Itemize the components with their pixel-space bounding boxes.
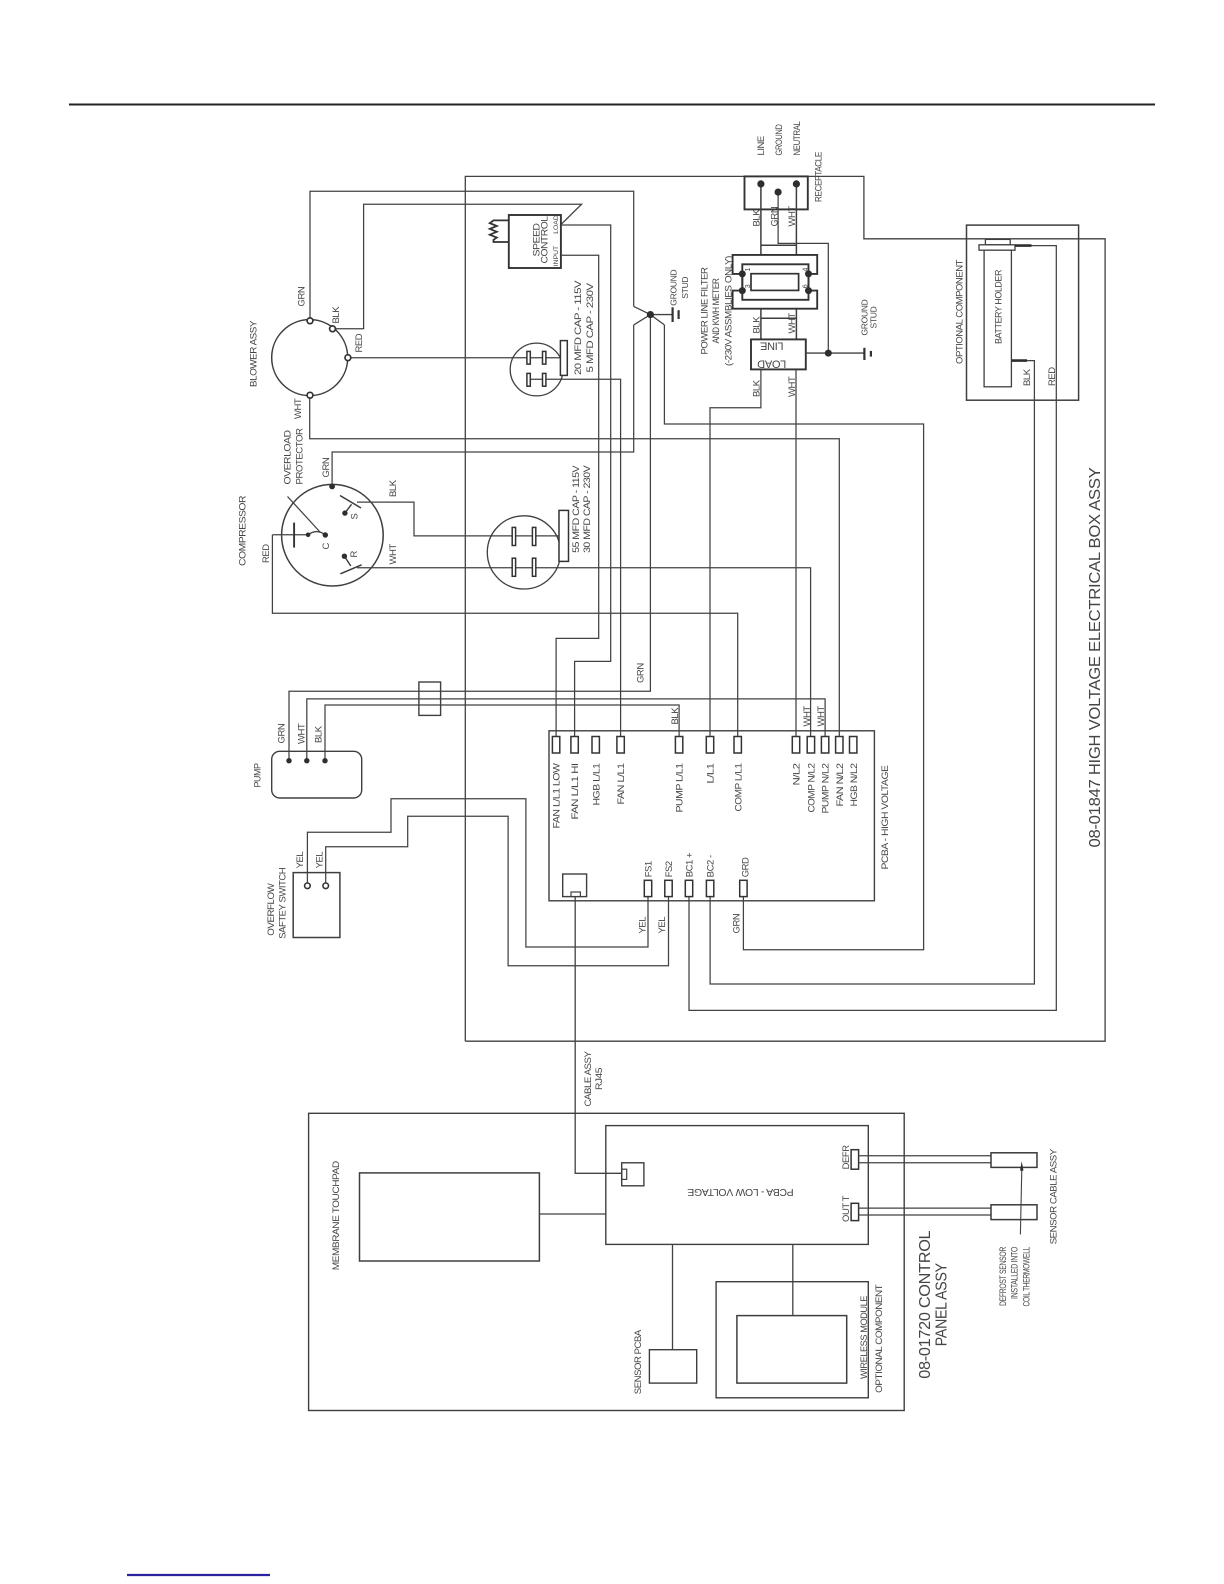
svg-text:NEUTRAL: NEUTRAL [792, 121, 803, 155]
svg-text:BLK: BLK [752, 316, 763, 334]
svg-text:FAN L/L1 HI: FAN L/L1 HI [570, 764, 581, 820]
svg-text:GRD: GRD [741, 857, 752, 877]
pump box [272, 751, 362, 798]
svg-text:PUMP N/L2: PUMP N/L2 [821, 763, 832, 813]
svg-text:LOAD: LOAD [553, 215, 560, 234]
wire: blower BLK to speed control flag [334, 204, 582, 329]
wire: speed control LOAD to FAN L/L1 HI [561, 225, 611, 737]
svg-text:PANEL ASSY: PANEL ASSY [933, 1263, 950, 1347]
ground stud 2 symbol [864, 348, 871, 360]
node: junction dot at ground stud 2 [825, 350, 832, 357]
arrow: defrost sensor pointer [1020, 1169, 1021, 1235]
node: blower BLK terminal [330, 326, 336, 332]
wireless module outer box [716, 1282, 868, 1398]
svg-text:AND KWH METER: AND KWH METER [711, 278, 722, 344]
svg-text:GROUND: GROUND [774, 124, 785, 155]
wireless module inner box [737, 1316, 847, 1384]
node: compressor R dot [342, 554, 347, 559]
capacitor C1 plates [527, 351, 546, 386]
svg-text:RECEPTACLE: RECEPTACLE [813, 152, 824, 202]
wire: filter BLK down to LINE box [760, 309, 762, 340]
wire: high voltage box boundary (left of receptacle) [465, 176, 744, 1041]
svg-text:20 MFD CAP - 115V: 20 MFD CAP - 115V [573, 280, 584, 375]
filter middle rectangle [742, 264, 808, 300]
svg-text:FAN L/L1 LOW: FAN L/L1 LOW [552, 763, 563, 829]
svg-text:OVERFLOW: OVERFLOW [266, 883, 277, 935]
svg-text:OPTIONAL COMPONENT: OPTIONAL COMPONENT [874, 1284, 885, 1393]
wire: RED into overload protector [272, 534, 308, 536]
svg-text:GRN: GRN [277, 723, 288, 743]
svg-text:DEFR: DEFR [841, 1145, 852, 1170]
wire: pump BLK to PUMP L/L1 [325, 705, 679, 761]
capacitor C1 terminal bracket [560, 341, 567, 376]
svg-text:GRN: GRN [297, 286, 308, 306]
svg-text:SENSOR PCBA: SENSOR PCBA [633, 1329, 644, 1394]
RJ45 connector on low voltage PCBA [622, 1163, 644, 1186]
svg-text:GRN: GRN [321, 457, 332, 477]
wire: GRD from junction to PCBA GRD [664, 325, 923, 950]
wire: blower RED to capacitor C1 [350, 357, 560, 359]
wire: high voltage box boundary (right of receptacle, jog and right side) [465, 176, 1105, 1041]
svg-text:BLK: BLK [388, 479, 399, 497]
svg-text:RED: RED [354, 333, 365, 352]
battery cap bar [979, 245, 1015, 250]
wire: low voltage PCBA to wireless module [792, 1244, 794, 1315]
OUT T terminal [851, 1203, 859, 1220]
svg-text:STUD: STUD [869, 306, 879, 328]
svg-text:FAN L/L1: FAN L/L1 [616, 763, 627, 804]
svg-text:GRN: GRN [769, 206, 780, 226]
sensor PCBA box [649, 1350, 696, 1383]
PCBA high voltage box [549, 731, 874, 901]
battery nub [985, 239, 1010, 244]
receptacle box [745, 176, 808, 209]
svg-text:GROUND: GROUND [669, 270, 679, 306]
svg-text:RED: RED [1047, 367, 1058, 386]
wire: pump GRN to ground junction [289, 315, 650, 761]
node: compressor GRN dot [329, 484, 335, 490]
svg-text:WHT: WHT [297, 723, 308, 744]
svg-text:WHT: WHT [293, 398, 304, 419]
RJ45 low voltage notch [622, 1169, 627, 1179]
battery holder body [984, 250, 1011, 387]
wire: speed control INPUT to FAN L/L1 LOW [556, 255, 599, 736]
svg-text:LINE: LINE [760, 340, 783, 352]
wire: diagonal GRN lower into junction [634, 315, 651, 325]
svg-text:COIL THERMOWELL: COIL THERMOWELL [1021, 1247, 1032, 1307]
svg-text:3: 3 [745, 284, 752, 288]
svg-text:OPTIONAL COMPONENT: OPTIONAL COMPONENT [955, 259, 966, 364]
svg-text:DEFROST SENSOR: DEFROST SENSOR [998, 1247, 1009, 1306]
svg-text:(-230V ASSMBLIES ONLY): (-230V ASSMBLIES ONLY) [724, 256, 735, 366]
compressor S contact blade [340, 496, 361, 509]
compressor motor [282, 484, 384, 586]
wire: battery RED to BC1 [689, 246, 1056, 1011]
svg-text:R: R [349, 551, 360, 558]
wire: filter top tab bridge [761, 244, 797, 246]
wire: DEFR sensor pair upper [859, 1155, 991, 1157]
LINE/LOAD box [751, 339, 806, 369]
svg-text:INPUT: INPUT [553, 246, 560, 266]
svg-text:POWER LINE FILTER: POWER LINE FILTER [699, 267, 710, 355]
svg-text:WHT: WHT [787, 313, 798, 334]
node: compressor C dot [323, 532, 328, 537]
wire: cable assy RJ45 down to low voltage PCBA [575, 897, 622, 1174]
svg-text:FAN N/L2: FAN N/L2 [835, 763, 846, 806]
cable bundle rectangle over pump wires [419, 682, 441, 715]
svg-text:BLK: BLK [331, 306, 342, 324]
wire: switch YEL2 to FS2 [326, 816, 669, 966]
svg-text:PUMP L/L1: PUMP L/L1 [675, 763, 686, 812]
svg-text:N/L2: N/L2 [792, 763, 803, 785]
svg-text:OUT T: OUT T [841, 1195, 852, 1222]
wire: blower GRN up and right to ground net [310, 191, 634, 318]
node: ground junction dot [647, 311, 654, 318]
svg-text:YEL: YEL [295, 852, 306, 869]
speed control box [509, 215, 561, 268]
svg-text:WHT: WHT [388, 544, 399, 565]
wire: battery BLK to BC2 [710, 361, 1034, 984]
wire: OUT T sensor pair upper [859, 1207, 991, 1209]
wire: junction to ground stud 1 [650, 314, 671, 316]
wire: receptacle GROUND GRN to ground stud junction [778, 192, 828, 353]
battery positive terminal stub [1015, 244, 1032, 247]
svg-text:1: 1 [745, 268, 752, 272]
wire: compressor S BLK to capacitor C2 top [357, 502, 559, 536]
filter inner rectangle [751, 274, 799, 291]
svg-text:BLK: BLK [1022, 368, 1033, 386]
wire: receptacle LINE BLK down to filter [760, 184, 762, 255]
capacitor C2 circle [487, 516, 560, 589]
node: receptacle LINE dot [757, 180, 764, 187]
ground stud 1 symbol [673, 307, 679, 322]
svg-text:GRN: GRN [636, 663, 647, 683]
node: pump WHT dot [304, 758, 309, 763]
sensor connector 2 (OUT T) [991, 1205, 1037, 1220]
wire: LOAD WHT to N/L2 [795, 369, 797, 736]
svg-text:YEL: YEL [657, 917, 668, 934]
svg-text:PCBA - LOW VOLTAGE: PCBA - LOW VOLTAGE [687, 1186, 793, 1198]
sensor connector 1 (DEFR) [991, 1153, 1037, 1168]
compressor S contact stub [345, 504, 352, 513]
svg-text:HGB N/L2: HGB N/L2 [849, 763, 860, 806]
node: receptacle NEUTRAL dot [793, 180, 800, 187]
svg-text:55 MFD CAP - 115V: 55 MFD CAP - 115V [571, 465, 582, 553]
svg-text:FS1: FS1 [644, 861, 655, 877]
svg-text:BLOWER ASSY: BLOWER ASSY [248, 320, 259, 387]
wire: capacitor C1 bottom plate to FAN L/L1 [527, 379, 621, 736]
wire: compressor GRN up and right to ground net [332, 325, 634, 489]
wire: switch YEL1 to FS1 [307, 799, 648, 947]
svg-text:WHT: WHT [816, 706, 827, 727]
node: receptacle GROUND dot [775, 189, 782, 196]
node: blower RED terminal [345, 355, 351, 361]
svg-text:YEL: YEL [638, 917, 649, 934]
node: pump GRN dot [286, 758, 291, 763]
svg-text:WHT: WHT [802, 706, 813, 727]
svg-text:L/L1: L/L1 [705, 763, 716, 783]
overload protector arc [308, 532, 325, 535]
svg-text:STUD: STUD [680, 277, 690, 299]
svg-text:YEL: YEL [315, 852, 326, 869]
node: switch terminal 1 [305, 883, 311, 889]
svg-text:WHT: WHT [787, 206, 798, 227]
svg-text:C: C [321, 543, 332, 550]
svg-text:MEMBRANE TOUCHPAD: MEMBRANE TOUCHPAD [331, 1161, 342, 1271]
node: overload small dot [306, 533, 311, 538]
wire: low voltage PCBA to sensor PCBA [672, 1244, 674, 1349]
power line filter outline [733, 255, 818, 309]
wire: LOAD BLK to L/L1 [710, 369, 761, 736]
page bottom blue rule [127, 1574, 270, 1576]
svg-text:FS2: FS2 [664, 861, 675, 877]
RJ45 connector on PCBA [563, 874, 587, 897]
svg-text:SENSOR CABLE ASSY: SENSOR CABLE ASSY [1048, 1148, 1059, 1244]
node: compressor S dot [342, 510, 347, 515]
PCBA bottom terminals [644, 880, 747, 896]
capacitor C2 terminal bracket [559, 510, 569, 561]
svg-text:PUMP: PUMP [253, 763, 264, 787]
wire: receptacle NEUTRAL WHT down to filter [795, 184, 797, 255]
svg-text:WIRELESS MODULE: WIRELESS MODULE [859, 1296, 870, 1379]
overflow safety switch box [293, 873, 340, 938]
svg-text:5 MFD CAP - 230V: 5 MFD CAP - 230V [585, 282, 596, 372]
wire: diagonal GRN upper into junction [634, 306, 651, 314]
svg-text:BLK: BLK [670, 707, 681, 725]
node: blower WHT terminal [307, 392, 313, 398]
wire: OUT T sensor pair lower [859, 1214, 991, 1216]
svg-text:S: S [350, 514, 361, 520]
svg-text:PROTECTOR: PROTECTOR [295, 428, 306, 485]
svg-text:08-01720 CONTROL: 08-01720 CONTROL [917, 1230, 934, 1378]
svg-text:COMPRESSOR: COMPRESSOR [238, 495, 249, 566]
control panel box [309, 1113, 905, 1410]
PCBA low voltage box [606, 1126, 869, 1245]
svg-text:CABLE ASSY: CABLE ASSY [583, 1050, 594, 1106]
page top rule [69, 104, 1155, 106]
svg-text:COMP N/L2: COMP N/L2 [807, 763, 818, 812]
optional component box [967, 225, 1079, 400]
membrane touchpad [360, 1173, 540, 1261]
svg-text:COMP L/L1: COMP L/L1 [733, 763, 744, 811]
overload protector pointer line [288, 497, 321, 533]
node: switch terminal 2 [323, 883, 329, 889]
svg-text:BLK: BLK [314, 725, 325, 743]
capacitor C2 plates [512, 527, 536, 576]
svg-text:BLK: BLK [752, 209, 763, 227]
wire: DEFR sensor pair lower [859, 1162, 991, 1164]
svg-text:CONTROL: CONTROL [539, 216, 550, 263]
svg-text:HGB L/L1: HGB L/L1 [591, 763, 602, 805]
blower motor B1 [272, 320, 348, 396]
node: filter pin 1 [739, 270, 746, 277]
wire: filter bottom tab bridge [761, 317, 797, 319]
RJ45 connector notch [571, 892, 580, 897]
svg-text:BATTERY HOLDER: BATTERY HOLDER [994, 269, 1005, 344]
svg-text:LINE: LINE [756, 136, 767, 155]
capacitor C1 circle [510, 343, 563, 396]
svg-text:INSTALLED INTO: INSTALLED INTO [1010, 1247, 1021, 1299]
overload protector bar [293, 523, 295, 548]
wire: compressor R WHT to capacitor C2 bottom and COMP N/L2 [357, 568, 811, 737]
wire: compressor C RED to COMP L/L1 [272, 535, 737, 737]
svg-text:08-01847 HIGH VOLTAGE ELECTRIC: 08-01847 HIGH VOLTAGE ELECTRICAL BOX ASS… [1087, 467, 1104, 848]
DEFR terminal [851, 1150, 859, 1170]
PCBA top terminals [552, 737, 857, 754]
compressor R contact stub [344, 556, 350, 566]
wire: blower WHT down to FAN N/L2 line [310, 398, 840, 736]
node: pump BLK dot [322, 758, 327, 763]
svg-text:6: 6 [802, 284, 809, 288]
wire: LINE box to ground stud 2 [806, 352, 864, 354]
svg-text:PCBA - HIGH VOLTAGE: PCBA - HIGH VOLTAGE [880, 765, 891, 869]
resistor: speed control heater zigzag [490, 220, 509, 242]
svg-text:GRN: GRN [732, 913, 743, 933]
wire: diagonal GRD into junction [650, 315, 664, 325]
wire: touchpad to low voltage PCBA [539, 1213, 605, 1215]
svg-text:BLK: BLK [752, 379, 763, 397]
svg-text:OVERLOAD: OVERLOAD [283, 430, 294, 485]
node: blower GRN terminal [307, 318, 313, 324]
node: filter pin 3 [739, 287, 746, 294]
svg-text:SAFTEY SWITCH: SAFTEY SWITCH [278, 867, 289, 939]
node: filter pin 6 [805, 287, 812, 294]
svg-text:RED: RED [261, 544, 272, 563]
node: filter pin 4 [805, 270, 812, 277]
svg-text:LOAD: LOAD [757, 358, 786, 370]
svg-text:30 MFD CAP - 230V: 30 MFD CAP - 230V [582, 465, 593, 553]
wire: filter WHT down to LINE box [795, 309, 797, 340]
svg-text:WHT: WHT [787, 376, 798, 397]
svg-text:RJ45: RJ45 [594, 1068, 605, 1090]
battery negative terminal stub [1011, 359, 1027, 362]
svg-text:4: 4 [802, 268, 809, 272]
compressor R contact blade [340, 565, 361, 574]
svg-text:BC2 -: BC2 - [706, 855, 717, 877]
wire: pump WHT to PUMP N/L2 [307, 699, 825, 761]
svg-text:BC1 +: BC1 + [685, 852, 696, 877]
